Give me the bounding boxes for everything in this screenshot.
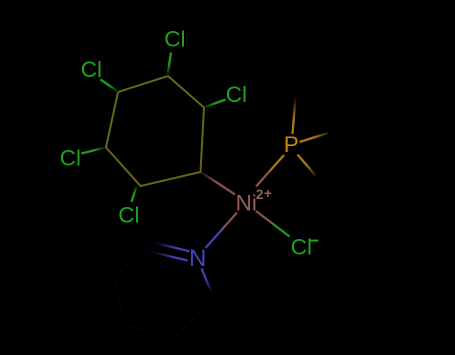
- benzene ring C6Cl5 (olive carbon skeleton): [106, 76, 204, 186]
- wire: bond C-Cl left: [82, 148, 106, 154]
- svg-text:+: +: [264, 186, 272, 201]
- wire: bond C-Cl top: [168, 53, 172, 76]
- svg-text:Cl: Cl: [164, 27, 185, 52]
- svg-text:2: 2: [256, 187, 264, 202]
- wire: pyridine N-C6 bond: [202, 269, 214, 297]
- svg-text:Cl: Cl: [291, 235, 312, 260]
- wire: bond P-CH3 lower-right: [298, 155, 316, 176]
- svg-text:Cl: Cl: [118, 203, 139, 228]
- label Ni2+: [236, 186, 272, 216]
- svg-text:Cl: Cl: [81, 57, 102, 82]
- svg-text:P: P: [284, 132, 299, 157]
- wire: bond P-CH3 up: [293, 97, 296, 134]
- wire: pyridine N=C2 double bond line 2: [149, 251, 188, 260]
- wire: bond Ni-P: [256, 155, 284, 187]
- svg-text:Cl: Cl: [60, 146, 81, 171]
- label Cl- (chloride): [291, 235, 319, 260]
- svg-text:Ni: Ni: [236, 190, 257, 215]
- wire: pyridine N=C2 double bond line 1: [151, 242, 190, 251]
- wire: bond C-Cl upper-left: [101, 80, 119, 92]
- svg-text:Cl: Cl: [226, 82, 247, 107]
- wire: bond Ni-N: [206, 213, 238, 249]
- wire: bond C-Cl bottom: [132, 186, 137, 202]
- wire: bond P-CH3 right: [300, 133, 329, 142]
- wire: bond Ni-C(phenyl): [202, 173, 236, 195]
- wire: pyridine dark carbon bonds C2-C3-C4-C5-C6: [114, 246, 214, 339]
- wire: bond Ni-Cl: [256, 211, 290, 237]
- wire: bond C-Cl right: [205, 100, 226, 108]
- svg-text:N: N: [189, 245, 206, 272]
